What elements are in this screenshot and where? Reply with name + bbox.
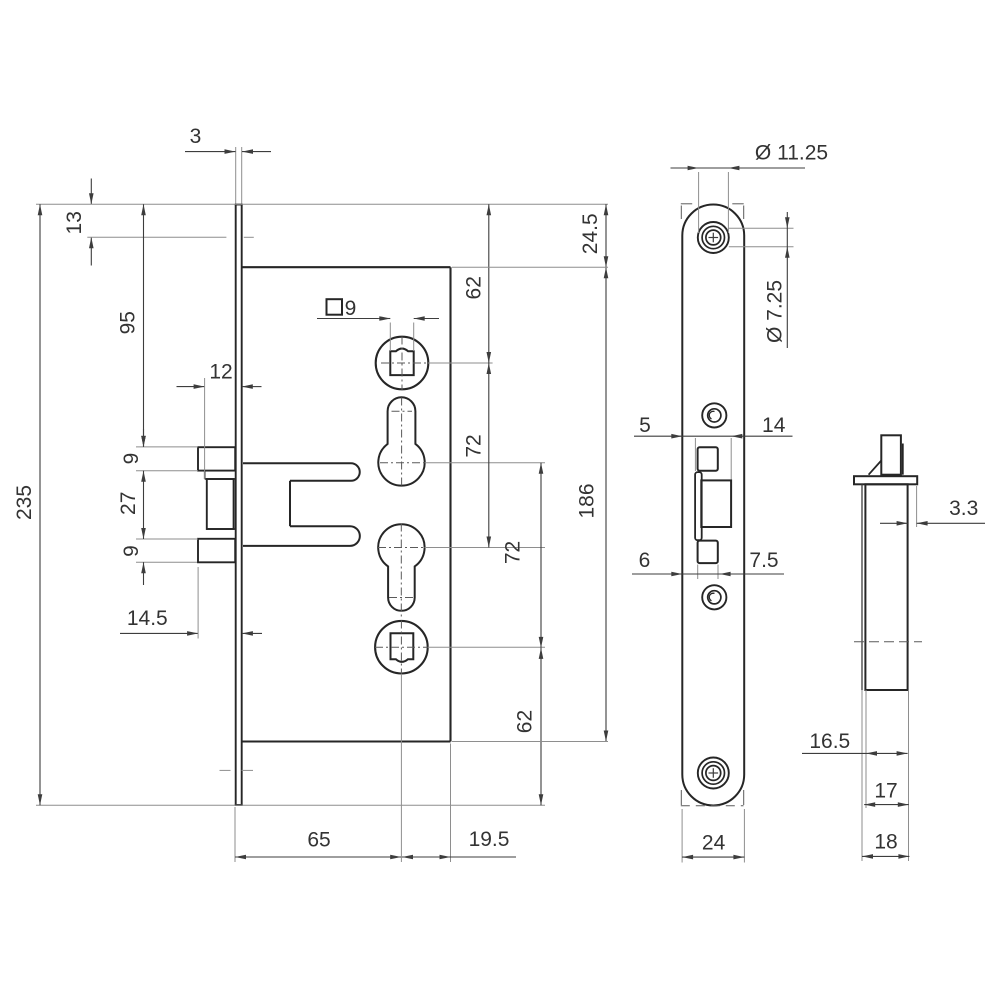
svg-text:24: 24	[702, 832, 726, 855]
svg-text:65: 65	[307, 829, 330, 852]
svg-text:9: 9	[120, 545, 143, 557]
svg-text:18: 18	[874, 831, 897, 854]
svg-text:9: 9	[345, 297, 357, 320]
svg-text:95: 95	[117, 311, 140, 334]
svg-text:3.3: 3.3	[949, 497, 978, 520]
svg-text:72: 72	[462, 434, 485, 457]
svg-text:9: 9	[120, 453, 143, 465]
svg-text:19.5: 19.5	[469, 828, 510, 851]
svg-text:14.5: 14.5	[127, 607, 168, 630]
svg-text:3: 3	[190, 125, 202, 148]
svg-text:5: 5	[639, 414, 651, 437]
svg-text:14: 14	[762, 414, 786, 437]
svg-text:72: 72	[501, 541, 524, 564]
svg-text:Ø 7.25: Ø 7.25	[764, 280, 787, 343]
svg-text:16.5: 16.5	[809, 730, 850, 753]
svg-text:17: 17	[874, 780, 897, 803]
svg-text:62: 62	[514, 710, 537, 733]
svg-text:7.5: 7.5	[749, 549, 778, 572]
svg-text:6: 6	[639, 549, 651, 572]
svg-text:27: 27	[117, 492, 140, 515]
svg-text:235: 235	[13, 485, 36, 520]
svg-text:Ø 11.25: Ø 11.25	[755, 142, 828, 165]
svg-text:12: 12	[209, 360, 232, 383]
svg-text:24.5: 24.5	[579, 213, 602, 254]
svg-text:13: 13	[63, 211, 86, 234]
svg-text:62: 62	[462, 276, 485, 299]
svg-text:186: 186	[575, 483, 598, 518]
